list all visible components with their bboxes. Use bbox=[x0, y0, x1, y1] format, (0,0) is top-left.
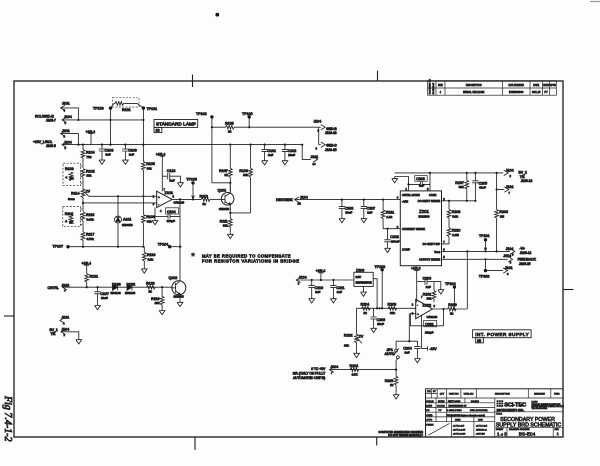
svg-text:R202: R202 bbox=[344, 334, 353, 338]
svg-text:MTRL NO: MTRL NO bbox=[464, 394, 474, 396]
testpoint TP203 bbox=[375, 265, 386, 308]
diode D103 bbox=[111, 283, 122, 295]
capacitor C106 bbox=[122, 145, 137, 165]
svg-text:-: - bbox=[417, 303, 418, 307]
connector J104/GRD-B bbox=[314, 119, 338, 135]
svg-text:R120: R120 bbox=[146, 281, 155, 285]
node vout junctions bbox=[466, 250, 498, 252]
wire W9 Z101 output bbox=[172, 198, 201, 200]
connector J101 pin14 bbox=[311, 155, 319, 166]
svg-text:J104: J104 bbox=[506, 247, 514, 251]
svg-text:R106: R106 bbox=[146, 215, 155, 219]
svg-text:1uF: 1uF bbox=[405, 351, 410, 355]
resistor R203 bbox=[388, 303, 397, 315]
svg-text:CHKD: CHKD bbox=[426, 415, 433, 417]
svg-text:J101: J101 bbox=[62, 102, 70, 106]
svg-text:2.5V: 2.5V bbox=[356, 275, 362, 279]
svg-text:REFERENCE: REFERENCE bbox=[356, 280, 372, 284]
svg-text:R121: R121 bbox=[90, 274, 99, 278]
node W9/C104 bbox=[179, 198, 181, 200]
node jp1/c204 bbox=[408, 340, 410, 342]
resistor R101 bbox=[111, 98, 144, 113]
svg-text:DC SHIFT B/P: DC SHIFT B/P bbox=[423, 242, 441, 246]
svg-text:GRD-C: GRD-C bbox=[326, 144, 337, 148]
node R211/C202 bbox=[386, 228, 388, 230]
capacitor C211 bbox=[330, 280, 344, 303]
svg-text:1k: 1k bbox=[149, 290, 153, 294]
svg-text:OUTPUT SENSE: OUTPUT SENSE bbox=[419, 258, 440, 262]
resistor R121 bbox=[85, 273, 98, 287]
svg-text:A101: A101 bbox=[123, 217, 131, 221]
svg-text:1k: 1k bbox=[390, 383, 394, 387]
svg-text:Z201: Z201 bbox=[419, 209, 430, 214]
node out/fb bbox=[442, 308, 444, 310]
svg-text:J104: J104 bbox=[300, 196, 308, 200]
connector J101 second bbox=[61, 129, 79, 145]
capacitor C104 bbox=[155, 199, 180, 222]
resistor R116 dashed spare bbox=[63, 207, 83, 227]
U201 CASE pin bbox=[429, 173, 431, 191]
node W7/R119 bbox=[161, 286, 163, 288]
svg-text:CHKD: CHKD bbox=[543, 85, 550, 87]
node rail/R206 bbox=[496, 172, 498, 174]
svg-text:R209: R209 bbox=[448, 303, 457, 307]
node R206 top bbox=[496, 188, 498, 190]
svg-text:4.7K: 4.7K bbox=[352, 372, 359, 376]
svg-text:J104: J104 bbox=[314, 119, 322, 123]
label box INT. POWER SUPPLY bbox=[473, 330, 531, 343]
resistor R107 bbox=[219, 145, 232, 193]
wire ref rail bbox=[296, 279, 354, 281]
svg-text:JP1: JP1 bbox=[387, 348, 393, 352]
svg-text:1uF: 1uF bbox=[170, 178, 175, 182]
svg-text:Q101: Q101 bbox=[218, 189, 227, 193]
svg-text:Z203: Z203 bbox=[356, 268, 364, 272]
power flag +15L4 ref bbox=[316, 269, 326, 280]
capacitor C210 bbox=[309, 280, 324, 303]
svg-text:1uF: 1uF bbox=[129, 153, 134, 157]
svg-text:1N4148: 1N4148 bbox=[111, 291, 122, 295]
svg-text:±2 PLC ±0.25: ±2 PLC ±0.25 bbox=[453, 429, 466, 431]
svg-text:1k: 1k bbox=[224, 173, 228, 177]
svg-text:CNTRL MODE: CNTRL MODE bbox=[402, 193, 420, 197]
svg-text:R114: R114 bbox=[71, 191, 79, 195]
connector J104 ref input bbox=[296, 275, 306, 285]
svg-text:+VIN: +VIN bbox=[402, 199, 408, 203]
top rail right bbox=[395, 172, 504, 174]
svg-text:±3 PLC ±0.10: ±3 PLC ±0.10 bbox=[453, 433, 466, 435]
node W9/TP105 bbox=[192, 198, 194, 200]
connector J101 lower right bbox=[486, 266, 513, 276]
capacitor C107 bbox=[94, 287, 109, 310]
svg-text:DC SHIFT SENSE: DC SHIFT SENSE bbox=[418, 199, 440, 203]
svg-text:10uF: 10uF bbox=[288, 153, 295, 157]
svg-text:R103: R103 bbox=[65, 167, 74, 171]
svg-text:TP201: TP201 bbox=[479, 234, 490, 238]
resistor R208 bbox=[447, 201, 460, 228]
testpoint TP102 bbox=[196, 112, 214, 183]
svg-text:90k: 90k bbox=[147, 219, 152, 223]
svg-text:INSTRUMENTS INC.: INSTRUMENTS INC. bbox=[497, 408, 525, 412]
svg-text:68uF: 68uF bbox=[479, 186, 486, 190]
node W4/A101 bbox=[117, 195, 119, 197]
svg-text:J103-18: J103-18 bbox=[325, 131, 337, 135]
wire Z202 output bbox=[433, 308, 468, 310]
wire W8 emitter bbox=[230, 212, 250, 214]
revision table bbox=[428, 79, 557, 96]
node ref junctions bbox=[311, 279, 335, 281]
wire W4 to Z101 minus input bbox=[89, 195, 157, 197]
power flag +15L4 top bbox=[86, 130, 96, 145]
node rail/R207 bbox=[466, 172, 468, 174]
svg-text:CA3140: CA3140 bbox=[427, 315, 438, 319]
svg-text:C104: C104 bbox=[167, 210, 176, 214]
svg-text:1uF: 1uF bbox=[315, 290, 320, 294]
svg-text:DOCUMENT NO: DOCUMENT NO bbox=[430, 79, 432, 95]
fold tick top right bbox=[377, 71, 379, 82]
svg-text:62K: 62K bbox=[459, 185, 465, 189]
svg-text:SCALE: SCALE bbox=[426, 400, 434, 403]
svg-text:10k: 10k bbox=[87, 174, 92, 178]
node rail/C205 bbox=[474, 172, 476, 174]
svg-text:J105-12: J105-12 bbox=[520, 251, 532, 255]
resistor R105 bbox=[142, 161, 155, 196]
resistor R104 bbox=[81, 145, 94, 168]
resistor R113 bbox=[200, 194, 222, 205]
svg-text:DATE: DATE bbox=[426, 405, 432, 408]
connector J101 bottom bbox=[60, 316, 69, 326]
testpoint TP202 bbox=[479, 259, 490, 278]
svg-text:1k: 1k bbox=[203, 202, 207, 206]
svg-text:LTR: LTR bbox=[427, 391, 431, 393]
svg-text:C206: C206 bbox=[416, 177, 425, 181]
svg-text:QTY: QTY bbox=[440, 394, 445, 396]
drawing border frame bbox=[14, 81, 563, 437]
capacitor C207 bbox=[361, 200, 376, 223]
svg-text:10k: 10k bbox=[344, 343, 349, 347]
node W1/TP103col bbox=[109, 119, 111, 121]
svg-text:R105: R105 bbox=[146, 162, 155, 166]
svg-text:1uF: 1uF bbox=[337, 290, 342, 294]
connector J104 -Ve bbox=[506, 247, 532, 257]
svg-text:NEXT ASSN: NEXT ASSN bbox=[448, 400, 461, 403]
wire feedback to Vout rail bbox=[466, 251, 468, 309]
fold tick left edge bbox=[4, 315, 14, 317]
svg-text:1uF: 1uF bbox=[268, 153, 273, 157]
power flag +15L4 at Z101 bbox=[156, 152, 166, 191]
svg-text:J105-7: J105-7 bbox=[46, 119, 56, 123]
svg-text:±1 PLC ±0.5: ±1 PLC ±0.5 bbox=[476, 425, 488, 427]
svg-text:120pF: 120pF bbox=[425, 331, 434, 335]
svg-text:70k: 70k bbox=[87, 155, 92, 159]
net label RCL/GRD-E J105-7 bbox=[35, 114, 56, 122]
wire W7 control bbox=[63, 286, 172, 288]
svg-text:AUTOMATED UNITS): AUTOMATED UNITS) bbox=[293, 376, 325, 380]
svg-text:CURRENT SENSE: CURRENT SENSE bbox=[402, 227, 425, 231]
testpoint TP104 bbox=[158, 242, 172, 248]
svg-text:J105-13: J105-13 bbox=[521, 179, 533, 183]
svg-text:FINISH: FINISH bbox=[426, 425, 434, 427]
wire W6a bbox=[68, 246, 144, 248]
resistor R212 bbox=[350, 364, 359, 376]
jumper JP1 bbox=[385, 314, 410, 370]
svg-text:DESCRIPTION: DESCRIPTION bbox=[466, 85, 482, 87]
svg-text:1B: 1B bbox=[156, 129, 161, 133]
svg-text:CNTRL: CNTRL bbox=[48, 286, 59, 290]
svg-text:TP203: TP203 bbox=[375, 265, 386, 269]
connector J101 top bbox=[61, 102, 79, 120]
resistor R108 bbox=[225, 121, 234, 133]
svg-text:TP102: TP102 bbox=[196, 112, 207, 116]
transistor Q101 bbox=[218, 183, 234, 213]
resistor R211 bbox=[381, 200, 400, 229]
wire OUTPUT SENSE bbox=[442, 258, 508, 260]
svg-text:ANGLES ±1: ANGLES ±1 bbox=[476, 428, 488, 431]
wire inverting input rail bbox=[357, 307, 416, 309]
capacitor C103 bbox=[99, 145, 114, 165]
svg-text:TITLE: TITLE bbox=[496, 413, 502, 415]
svg-text:CA3140: CA3140 bbox=[174, 201, 185, 205]
node base/R107 bbox=[229, 182, 231, 184]
fold tick top left bbox=[192, 75, 194, 88]
svg-text:10uF: 10uF bbox=[345, 210, 352, 214]
capacitor C209 bbox=[370, 308, 385, 332]
svg-text:ITEM: ITEM bbox=[554, 394, 559, 396]
node out/TP204 bbox=[453, 308, 455, 310]
svg-text:1K: 1K bbox=[69, 220, 74, 224]
capacitor C203 bbox=[417, 277, 434, 290]
node dcss junctions bbox=[448, 200, 477, 202]
resistor R119 bbox=[151, 287, 165, 315]
svg-text:STANDARD LAMP: STANDARD LAMP bbox=[156, 121, 196, 126]
connector J101 pin7 bbox=[497, 185, 514, 195]
svg-text:R204: R204 bbox=[361, 303, 370, 307]
node W1/J101 bbox=[77, 119, 79, 121]
testpoint TP201 bbox=[479, 234, 490, 251]
svg-text:BS-E04: BS-E04 bbox=[471, 400, 479, 403]
svg-text:1k: 1k bbox=[364, 311, 368, 315]
svg-text:2N2905: 2N2905 bbox=[174, 295, 185, 299]
svg-text:TP104: TP104 bbox=[158, 242, 169, 246]
svg-text:INITIAL RELEASE: INITIAL RELEASE bbox=[463, 91, 485, 94]
svg-text:10k: 10k bbox=[155, 301, 160, 305]
resistor R207 bbox=[455, 173, 468, 201]
resistor R206 bbox=[495, 173, 508, 252]
svg-text:BS-E04: BS-E04 bbox=[519, 431, 536, 437]
wire TP102 to Q101 bbox=[212, 182, 230, 184]
fold tick bottom left bbox=[194, 437, 196, 450]
svg-text:R118: R118 bbox=[147, 253, 155, 257]
svg-text:PY: PY bbox=[544, 91, 548, 94]
svg-text:-Ve: -Ve bbox=[520, 247, 525, 251]
node rail/CASE bbox=[429, 172, 431, 174]
note asterisk bbox=[191, 252, 195, 256]
fold tick bottom right bbox=[376, 437, 378, 446]
svg-text:10uF: 10uF bbox=[377, 322, 384, 326]
svg-text:DWG APPROVAL: DWG APPROVAL bbox=[470, 409, 489, 412]
svg-text:1uF: 1uF bbox=[367, 210, 372, 214]
svg-text:5.1k: 5.1k bbox=[452, 214, 458, 218]
svg-text:P. SEALS ENG: P. SEALS ENG bbox=[447, 409, 462, 412]
power -15V bbox=[422, 315, 438, 351]
svg-text:93/1.25: 93/1.25 bbox=[532, 91, 541, 94]
svg-text:TP202: TP202 bbox=[479, 275, 490, 279]
svg-text:ENGINEERED BY: ENGINEERED BY bbox=[449, 406, 468, 408]
testpoint TP103 bbox=[93, 106, 112, 144]
wire Vout bbox=[442, 250, 510, 252]
svg-text:4.75k: 4.75k bbox=[87, 237, 95, 241]
node W5/R114col bbox=[82, 202, 84, 204]
svg-text:BS-E04/1of3: BS-E04/1of3 bbox=[433, 82, 435, 94]
svg-text:R203: R203 bbox=[388, 303, 397, 307]
svg-text:10k: 10k bbox=[243, 173, 248, 177]
net label 0 TO +5V bbox=[293, 367, 326, 380]
svg-text:Q102: Q102 bbox=[169, 276, 178, 280]
svg-text:R101: R101 bbox=[122, 108, 131, 112]
svg-text:TP101: TP101 bbox=[147, 107, 158, 111]
label box STANDARD LAMP bbox=[154, 120, 198, 133]
connector J104 BV_2 bbox=[504, 168, 533, 183]
svg-text:R108: R108 bbox=[225, 121, 234, 125]
svg-text:10k: 10k bbox=[390, 311, 395, 315]
node W6b/Q102col bbox=[179, 246, 181, 248]
resistor R118 bbox=[141, 247, 155, 273]
svg-text:Z101: Z101 bbox=[165, 191, 174, 195]
resistor R204 bbox=[361, 303, 371, 315]
resistor R210 bbox=[442, 228, 461, 244]
resistor R106 bbox=[142, 196, 155, 246]
svg-text:1k: 1k bbox=[228, 130, 232, 134]
regulator U201 bbox=[397, 187, 446, 266]
svg-text:TEL 306-934-0101: TEL 306-934-0101 bbox=[532, 408, 548, 410]
svg-text:FEEDBACK: FEEDBACK bbox=[518, 257, 537, 261]
svg-text:Z202: Z202 bbox=[423, 303, 432, 307]
svg-text:+: + bbox=[158, 195, 160, 199]
svg-text:DRAWING NUMBER: DRAWING NUMBER bbox=[509, 428, 530, 431]
transistor Q102 bbox=[169, 276, 186, 307]
ground at C203 bbox=[434, 282, 444, 294]
net label BV_1 TIK bbox=[50, 328, 58, 336]
svg-text:-15V: -15V bbox=[430, 347, 438, 351]
connector J104 (RCL) bbox=[62, 115, 72, 125]
svg-text:1k: 1k bbox=[450, 311, 454, 315]
node W7/C107 bbox=[96, 286, 98, 288]
capacitor C205 bbox=[472, 173, 487, 201]
svg-text:R212: R212 bbox=[350, 364, 359, 368]
svg-text:FOR RESISTOR VARIATIONS IN BRI: FOR RESISTOR VARIATIONS IN BRIDGE bbox=[202, 258, 299, 263]
node W3/TP102 bbox=[211, 126, 213, 128]
svg-text:1B: 1B bbox=[298, 202, 301, 206]
wire W2 +15 rail bbox=[62, 144, 302, 146]
Z101 V- ground bbox=[152, 208, 158, 225]
svg-text:REV: REV bbox=[438, 85, 443, 87]
svg-text:R113: R113 bbox=[200, 194, 208, 198]
title block bbox=[426, 389, 564, 438]
testpoint TP106 bbox=[242, 112, 253, 127]
fold tick right edge bbox=[563, 289, 574, 291]
svg-text:SUPPLY BRD SCHEMATIC: SUPPLY BRD SCHEMATIC bbox=[496, 423, 562, 429]
svg-text:J101: J101 bbox=[505, 266, 513, 270]
capacitor C204 bbox=[403, 341, 420, 363]
node W3/TP106 bbox=[248, 126, 250, 128]
node rail junctions bbox=[341, 199, 384, 201]
node W7/R121 bbox=[86, 286, 88, 288]
node W6a junctions bbox=[82, 246, 145, 248]
svg-text:APPD: APPD bbox=[550, 84, 557, 87]
op-amp Z101 bbox=[153, 188, 185, 212]
svg-text:1N4148: 1N4148 bbox=[125, 291, 136, 295]
svg-text:0.68k: 0.68k bbox=[87, 217, 95, 221]
svg-text:1K: 1K bbox=[70, 177, 75, 181]
SCI-TEC logo bbox=[497, 400, 504, 407]
wire heatsink rail bbox=[295, 199, 401, 201]
svg-text:DESCRIPTION: DESCRIPTION bbox=[495, 394, 510, 396]
svg-text:10k: 10k bbox=[427, 296, 432, 300]
svg-text:-: - bbox=[158, 202, 159, 206]
svg-text:J103-15: J103-15 bbox=[325, 148, 337, 152]
svg-text:Fig 7.4-1-2: Fig 7.4-1-2 bbox=[2, 395, 13, 442]
svg-text:DATE: DATE bbox=[533, 84, 539, 87]
resistor R115 bbox=[81, 212, 94, 232]
capacitor C123 bbox=[162, 169, 183, 187]
svg-text:TP103: TP103 bbox=[93, 107, 104, 111]
node os/TP202 bbox=[484, 258, 486, 260]
svg-text:Vout: Vout bbox=[434, 250, 440, 254]
connector GRD-C bbox=[316, 142, 338, 152]
resistor R102 bbox=[81, 169, 94, 190]
scan streak top right bbox=[590, 1, 600, 3]
svg-text:1uF: 1uF bbox=[106, 153, 111, 157]
svg-text:1.0M: 1.0M bbox=[452, 233, 459, 237]
capacitor C201 bbox=[424, 320, 437, 334]
svg-text:+: + bbox=[417, 312, 419, 316]
testpoint TP107 bbox=[53, 245, 70, 249]
svg-text:0 TO +5V: 0 TO +5V bbox=[311, 367, 326, 371]
resistor R109 bbox=[239, 145, 252, 213]
svg-text:C201: C201 bbox=[425, 323, 434, 327]
svg-text:±0.5 DEG: ±0.5 DEG bbox=[476, 433, 485, 435]
svg-text:90k: 90k bbox=[147, 166, 152, 170]
svg-text:2N3055: 2N3055 bbox=[219, 207, 230, 211]
svg-text:C123: C123 bbox=[167, 169, 176, 173]
svg-text:TP107: TP107 bbox=[53, 245, 64, 249]
svg-text:J104: J104 bbox=[506, 168, 514, 172]
wire J103 drop bbox=[318, 127, 320, 145]
resistor R209 bbox=[448, 303, 457, 315]
svg-text:REMARKS: REMARKS bbox=[534, 393, 545, 396]
wire DC SHIFT SENSE bbox=[442, 200, 476, 202]
svg-text:CASE: CASE bbox=[429, 193, 437, 197]
svg-text:9mm: 9mm bbox=[68, 197, 75, 201]
svg-text:J105-5: J105-5 bbox=[46, 144, 56, 148]
svg-text:100uF: 100uF bbox=[391, 239, 400, 243]
svg-text:10uF: 10uF bbox=[101, 296, 108, 300]
testpoint TP105 bbox=[186, 177, 197, 199]
svg-text:TOLERANCES (unless otherwise s: TOLERANCES (unless otherwise stated) bbox=[447, 414, 486, 417]
connector J104 BV1 bbox=[61, 327, 82, 344]
capacitor C102 bbox=[282, 145, 297, 165]
svg-text:MC2596: MC2596 bbox=[419, 215, 430, 219]
svg-text:470pF: 470pF bbox=[167, 219, 176, 223]
svg-text:1uF: 1uF bbox=[426, 285, 431, 289]
svg-text:4.3k: 4.3k bbox=[148, 257, 154, 261]
power flag +15L3 bbox=[411, 267, 421, 303]
svg-text:ECN#08/900: ECN#08/900 bbox=[509, 91, 524, 94]
svg-text:ANG: ANG bbox=[478, 419, 483, 422]
svg-text:R115: R115 bbox=[86, 213, 94, 217]
svg-text:1N963B: 1N963B bbox=[122, 223, 133, 227]
op-amp Z202 bbox=[412, 296, 438, 319]
